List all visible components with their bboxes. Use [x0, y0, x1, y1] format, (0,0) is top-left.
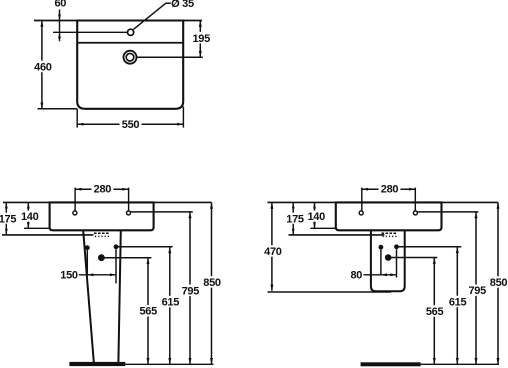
extension line tap hole level [53, 31, 128, 33]
extension line 140 level right view [310, 227, 336, 229]
svg-text:460: 460 [34, 62, 52, 74]
floor line right view [421, 363, 499, 365]
semi-pedestal fixing point left [379, 245, 384, 250]
extension line top edge right [183, 20, 202, 22]
dimension 195 line [192, 21, 212, 58]
dimension 795 right view [467, 212, 487, 364]
hidden drain dashes upper right view [382, 232, 398, 234]
extension line drain level [137, 56, 203, 58]
dimension 60 line [58, 10, 61, 42]
wall/top line right view [268, 201, 499, 203]
svg-text:795: 795 [182, 285, 200, 297]
dimension 565 right view [425, 258, 445, 365]
dimension 470 [263, 202, 283, 290]
extension line 175 level / bowl bottom left view [2, 234, 94, 236]
hidden drain dashes lower [95, 235, 110, 237]
extension line 175 level right view [289, 234, 385, 236]
svg-text:195: 195 [192, 33, 210, 45]
dimension 280 right view [362, 183, 416, 210]
extension line 550 right [182, 107, 184, 128]
floor line left view [125, 363, 213, 365]
drain hole inner [126, 53, 134, 61]
fixing hole left right view [359, 211, 363, 215]
hidden drain dashes upper [94, 232, 110, 234]
svg-text:140: 140 [307, 211, 325, 223]
svg-text:60: 60 [54, 0, 66, 10]
dimension 565 left view [139, 258, 159, 365]
fixing hole left [73, 211, 77, 215]
dimension 460 line [33, 21, 53, 109]
svg-text:850: 850 [490, 277, 508, 289]
dimension 140 right view [313, 202, 316, 228]
extension line 615 level right view [397, 246, 462, 248]
svg-text:280: 280 [94, 183, 112, 195]
pedestal left side [83, 231, 94, 363]
waste outlet point right view [385, 254, 392, 261]
wall/top line left view [3, 201, 212, 203]
extension line 140 level left view [24, 227, 50, 229]
fixing hole right [127, 211, 131, 215]
svg-text:550: 550 [122, 119, 140, 131]
extension line 550 left [76, 109, 78, 128]
svg-text:565: 565 [426, 306, 444, 318]
drain hole outer [124, 51, 137, 64]
pedestal base plate [69, 362, 125, 366]
label 175 left view [0, 213, 17, 224]
leader line to tap hole [133, 3, 170, 29]
extension line 470 bottom [268, 291, 392, 293]
dimension 175 right view [292, 202, 295, 235]
svg-text:175: 175 [286, 213, 304, 225]
svg-text:470: 470 [264, 246, 282, 258]
extension line bottom edge left [38, 108, 78, 110]
dimension 795 left view [181, 212, 201, 364]
dimension 150 [79, 249, 116, 283]
svg-text:Ø 35: Ø 35 [171, 0, 194, 10]
extension line 565 level left view [101, 257, 151, 259]
extension line 795 level right view [417, 211, 478, 213]
dimension 615 left view [161, 247, 181, 364]
dimension 615 right view [448, 247, 468, 364]
label 140 left view [21, 211, 39, 222]
floor plate right view [361, 362, 421, 366]
svg-text:795: 795 [468, 285, 486, 297]
dimension 140 left view [27, 202, 30, 228]
extension line 615 level left view [116, 246, 173, 248]
svg-text:850: 850 [203, 277, 221, 289]
svg-text:140: 140 [21, 211, 39, 223]
basin deck divider line [77, 42, 183, 44]
svg-text:615: 615 [449, 296, 467, 308]
svg-text:150: 150 [60, 269, 78, 281]
svg-text:175: 175 [0, 213, 16, 225]
tap hole [128, 29, 134, 35]
dimension 175 left view [5, 202, 8, 235]
dimension 850 right view [489, 202, 508, 364]
dimension 80 [364, 249, 397, 277]
extension line top edge left [34, 20, 77, 22]
basin front outline [50, 202, 154, 230]
label 175 right view [286, 213, 304, 224]
svg-text:280: 280 [381, 183, 399, 195]
basin plan outline [77, 21, 183, 109]
waste outlet point [98, 254, 105, 261]
svg-text:615: 615 [162, 297, 180, 309]
dimension 280 [75, 183, 129, 210]
semi-pedestal fixing point right [394, 244, 399, 249]
dimension 850 left view [202, 202, 222, 364]
svg-text:80: 80 [350, 269, 362, 281]
extension line 795 level left view [131, 211, 193, 213]
dimension 550 line [77, 118, 183, 129]
hidden drain dashes lower right view [383, 235, 398, 237]
fixing hole right right view [413, 211, 417, 215]
pedestal fixing point left [85, 245, 90, 250]
semi-pedestal outline [371, 230, 405, 291]
pedestal right side [118, 231, 120, 363]
svg-text:565: 565 [139, 306, 157, 318]
extension line 565 level right view [388, 257, 437, 259]
pedestal fixing point right [114, 244, 119, 249]
basin front outline right view [336, 202, 442, 230]
label 140 right view [308, 211, 326, 222]
